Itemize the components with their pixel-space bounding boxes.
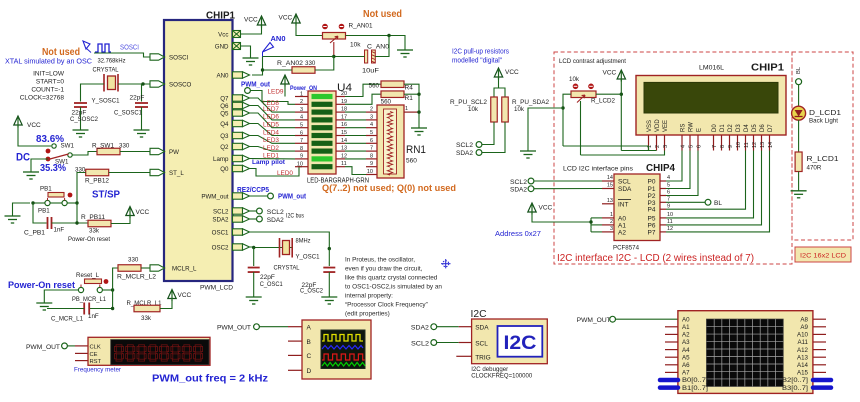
svg-text:11: 11 xyxy=(744,142,750,148)
svg-text:2: 2 xyxy=(610,219,613,225)
svg-text:SOSCI: SOSCI xyxy=(169,54,189,61)
svg-text:VCC: VCC xyxy=(279,15,293,22)
svg-text:D4: D4 xyxy=(744,124,750,132)
svg-text:I2C bus: I2C bus xyxy=(286,213,304,220)
svg-text:SOSCI: SOSCI xyxy=(120,45,139,52)
svg-text:C_OSC1: C_OSC1 xyxy=(260,281,283,288)
svg-text:even if you draw the circuit,: even if you draw the circuit, xyxy=(345,266,423,273)
svg-text:C_SOSC1: C_SOSC1 xyxy=(114,110,142,117)
svg-text:INT: INT xyxy=(618,201,629,208)
svg-text:VCC: VCC xyxy=(244,17,258,24)
svg-text:3: 3 xyxy=(300,107,303,113)
svg-text:22pF: 22pF xyxy=(260,274,275,281)
svg-text:PCF8574: PCF8574 xyxy=(613,245,639,252)
svg-text:6: 6 xyxy=(300,130,303,136)
svg-text:RN1: RN1 xyxy=(406,144,426,156)
svg-text:10k: 10k xyxy=(350,42,361,49)
svg-text:GND: GND xyxy=(215,43,229,50)
svg-text:330: 330 xyxy=(128,257,139,264)
svg-text:CLK: CLK xyxy=(90,344,101,350)
svg-text:PWM_LCD: PWM_LCD xyxy=(200,285,234,292)
svg-text:PW: PW xyxy=(169,149,179,156)
svg-text:33k: 33k xyxy=(89,228,100,235)
svg-text:ST_L: ST_L xyxy=(169,170,184,177)
svg-text:22pF: 22pF xyxy=(130,95,145,102)
svg-text:OSC1: OSC1 xyxy=(212,229,229,236)
svg-text:DC: DC xyxy=(16,152,30,164)
svg-text:A0: A0 xyxy=(682,316,690,323)
svg-text:Y_SOSC1: Y_SOSC1 xyxy=(92,98,120,105)
svg-text:10k: 10k xyxy=(468,106,479,113)
svg-text:SCL2: SCL2 xyxy=(411,340,430,347)
svg-text:R_PB12: R_PB12 xyxy=(85,178,110,185)
svg-text:7: 7 xyxy=(300,138,303,144)
svg-text:5: 5 xyxy=(300,123,303,129)
svg-text:33k: 33k xyxy=(141,315,152,322)
svg-text:R_PU_SDA2: R_PU_SDA2 xyxy=(512,99,550,106)
svg-text:D7: D7 xyxy=(768,124,774,132)
svg-text:SDA2: SDA2 xyxy=(456,150,474,157)
svg-text:internal property:: internal property: xyxy=(345,293,393,300)
svg-text:P1: P1 xyxy=(648,186,656,193)
svg-text:Vcc: Vcc xyxy=(218,31,228,38)
svg-text:7: 7 xyxy=(667,197,670,203)
svg-text:I2C: I2C xyxy=(504,333,537,354)
svg-text:3: 3 xyxy=(610,226,613,232)
svg-text:5: 5 xyxy=(667,183,670,189)
svg-text:2: 2 xyxy=(655,145,661,148)
svg-text:CHIP1: CHIP1 xyxy=(751,63,784,74)
svg-text:R_LCD1: R_LCD1 xyxy=(807,154,839,163)
svg-text:CRYSTAL: CRYSTAL xyxy=(274,265,300,272)
svg-text:SCL2: SCL2 xyxy=(213,208,229,215)
svg-text:R_PU_SCL2: R_PU_SCL2 xyxy=(450,99,488,106)
svg-text:VSS: VSS xyxy=(647,120,653,132)
svg-text:4: 4 xyxy=(370,122,373,128)
svg-text:13: 13 xyxy=(760,142,766,148)
svg-text:A10: A10 xyxy=(797,332,809,339)
svg-text:A2: A2 xyxy=(682,332,690,339)
svg-text:6: 6 xyxy=(370,138,373,144)
svg-text:CHIP1: CHIP1 xyxy=(206,11,235,22)
svg-text:1nF: 1nF xyxy=(54,227,65,234)
svg-text:9: 9 xyxy=(370,161,373,167)
svg-text:10: 10 xyxy=(667,212,673,218)
svg-text:C_OSC2: C_OSC2 xyxy=(300,288,323,295)
svg-text:13: 13 xyxy=(607,198,613,204)
svg-text:D1: D1 xyxy=(720,124,726,132)
svg-text:R1: R1 xyxy=(405,95,414,102)
svg-text:Lamp pilot: Lamp pilot xyxy=(252,159,286,166)
svg-text:E: E xyxy=(697,128,703,132)
svg-text:Lamp: Lamp xyxy=(213,156,229,163)
svg-text:R_MCLR_L2: R_MCLR_L2 xyxy=(117,274,157,281)
svg-text:SDA: SDA xyxy=(618,186,632,193)
svg-text:Power-On reset: Power-On reset xyxy=(8,280,76,291)
svg-text:Q5: Q5 xyxy=(220,110,229,117)
svg-text:SCL: SCL xyxy=(618,179,631,186)
svg-text:A9: A9 xyxy=(800,324,808,331)
svg-text:P7: P7 xyxy=(648,229,656,236)
svg-text:32.768kHz: 32.768kHz xyxy=(98,58,126,65)
svg-text:BL: BL xyxy=(796,66,802,74)
svg-text:3: 3 xyxy=(663,145,669,148)
svg-text:6: 6 xyxy=(667,190,670,196)
svg-text:Q0: Q0 xyxy=(220,166,229,173)
svg-text:LCD contrast adjustment: LCD contrast adjustment xyxy=(559,58,626,65)
svg-text:1nF: 1nF xyxy=(88,313,99,320)
svg-text:A13: A13 xyxy=(797,354,809,361)
svg-text:Y_OSC1: Y_OSC1 xyxy=(296,254,320,261)
svg-text:PWM_OUT: PWM_OUT xyxy=(577,317,611,324)
svg-text:R_SW1: R_SW1 xyxy=(92,143,115,150)
svg-text:Not used: Not used xyxy=(363,9,402,20)
svg-text:B3[0..7]: B3[0..7] xyxy=(782,385,808,392)
svg-text:A: A xyxy=(307,324,312,331)
svg-text:PB1: PB1 xyxy=(40,186,52,193)
svg-text:LED1: LED1 xyxy=(263,152,279,159)
svg-text:A1: A1 xyxy=(618,222,626,229)
svg-text:A1: A1 xyxy=(682,324,690,331)
svg-text:START=0: START=0 xyxy=(36,79,65,86)
svg-text:PWM_out: PWM_out xyxy=(241,80,271,89)
svg-text:SDA: SDA xyxy=(475,324,489,331)
svg-text:Power-On reset: Power-On reset xyxy=(68,236,110,243)
svg-text:VDD: VDD xyxy=(655,119,661,132)
svg-text:4: 4 xyxy=(667,175,670,181)
svg-text:Frequency meter: Frequency meter xyxy=(74,367,121,374)
svg-text:4: 4 xyxy=(681,145,687,148)
svg-text:10k: 10k xyxy=(569,76,580,83)
svg-text:I2C interface I2C - LCD (2 wi: I2C interface I2C - LCD (2 wires instead… xyxy=(557,252,754,264)
svg-text:R_AN01: R_AN01 xyxy=(349,23,373,30)
svg-text:SCL2: SCL2 xyxy=(267,209,285,216)
svg-text:SDA2: SDA2 xyxy=(212,216,229,223)
svg-text:14: 14 xyxy=(607,175,613,181)
svg-text:9: 9 xyxy=(300,154,303,160)
svg-text:(edit properties): (edit properties) xyxy=(345,311,390,318)
svg-text:P6: P6 xyxy=(648,222,656,229)
svg-text:470R: 470R xyxy=(807,165,822,172)
svg-text:MCLR_L: MCLR_L xyxy=(172,265,197,272)
svg-text:A8: A8 xyxy=(800,316,808,323)
svg-text:B0[0..7]: B0[0..7] xyxy=(682,377,708,384)
svg-text:R_LCD2: R_LCD2 xyxy=(591,98,615,105)
svg-text:RW: RW xyxy=(689,122,695,132)
svg-text:CE: CE xyxy=(90,352,98,358)
svg-text:10k: 10k xyxy=(514,106,525,113)
svg-text:1: 1 xyxy=(300,91,303,97)
svg-text:VEE: VEE xyxy=(663,120,669,132)
svg-text:SDA2: SDA2 xyxy=(267,217,285,224)
svg-text:“Processor Clock Frequency”: “Processor Clock Frequency” xyxy=(345,302,428,309)
svg-text:SDA2: SDA2 xyxy=(510,187,528,194)
svg-text:A2: A2 xyxy=(618,229,626,236)
svg-text:VCC: VCC xyxy=(178,292,192,299)
svg-text:A4: A4 xyxy=(682,347,690,354)
svg-text:6: 6 xyxy=(697,145,703,148)
svg-text:10: 10 xyxy=(367,169,373,175)
svg-text:VCC: VCC xyxy=(505,69,519,76)
svg-text:P0: P0 xyxy=(648,179,656,186)
svg-text:In Proteus, the oscillator,: In Proteus, the oscillator, xyxy=(345,257,415,264)
svg-text:A12: A12 xyxy=(797,347,809,354)
svg-text:COUNT=-1: COUNT=-1 xyxy=(31,87,64,94)
svg-text:LED4: LED4 xyxy=(263,129,279,136)
svg-text:P4: P4 xyxy=(648,207,656,214)
svg-text:4: 4 xyxy=(300,115,303,121)
svg-text:ST/SP: ST/SP xyxy=(92,189,120,201)
svg-text:LED6: LED6 xyxy=(263,114,279,121)
svg-text:LED5: LED5 xyxy=(263,122,279,129)
svg-text:to OSC1-OSC2,is simulated by a: to OSC1-OSC2,is simulated by an xyxy=(345,284,442,291)
svg-text:8: 8 xyxy=(300,146,303,152)
svg-text:D5: D5 xyxy=(752,124,758,132)
svg-text:P5: P5 xyxy=(648,215,656,222)
svg-text:Q7: Q7 xyxy=(220,95,229,102)
svg-text:modelled "digital": modelled "digital" xyxy=(452,58,502,65)
svg-text:LCD I2C interface pins: LCD I2C interface pins xyxy=(563,166,634,173)
svg-text:A3: A3 xyxy=(682,339,690,346)
svg-text:A5: A5 xyxy=(682,354,690,361)
svg-text:C_MCR_L1: C_MCR_L1 xyxy=(51,316,84,323)
svg-text:D_LCD1: D_LCD1 xyxy=(809,108,841,117)
svg-text:PWM_out freq = 2 kHz: PWM_out freq = 2 kHz xyxy=(152,373,268,385)
svg-text:AN0: AN0 xyxy=(271,36,286,43)
svg-text:VCC: VCC xyxy=(539,205,553,212)
svg-text:R_AN02: R_AN02 xyxy=(277,60,304,67)
svg-text:11: 11 xyxy=(667,219,673,225)
svg-text:INIT=LOW: INIT=LOW xyxy=(33,71,65,78)
svg-text:560: 560 xyxy=(369,83,380,90)
svg-text:CHIP4: CHIP4 xyxy=(646,163,675,174)
svg-text:SCL: SCL xyxy=(475,340,488,347)
svg-text:C: C xyxy=(307,353,312,360)
svg-text:PWM_OUT: PWM_OUT xyxy=(26,344,60,351)
svg-text:330: 330 xyxy=(305,60,316,67)
svg-text:PB1: PB1 xyxy=(38,208,50,215)
svg-text:A7: A7 xyxy=(682,370,690,377)
svg-text:RE2/CCP5: RE2/CCP5 xyxy=(237,185,269,194)
svg-text:A0: A0 xyxy=(618,215,626,222)
svg-text:Address 0x27: Address 0x27 xyxy=(495,229,541,238)
svg-text:CRYSTAL: CRYSTAL xyxy=(93,67,119,74)
svg-text:LED0: LED0 xyxy=(277,170,293,177)
svg-text:12: 12 xyxy=(667,226,673,232)
svg-text:like this quartz crystal conne: like this quartz crystal connected xyxy=(345,275,438,282)
svg-text:R4: R4 xyxy=(405,85,414,92)
svg-text:PWM_OUT: PWM_OUT xyxy=(217,325,251,332)
svg-text:XTAL simulated by an OSC: XTAL simulated by an OSC xyxy=(5,57,92,66)
svg-text:SCL2: SCL2 xyxy=(510,179,528,186)
svg-text:5: 5 xyxy=(370,130,373,136)
svg-text:5: 5 xyxy=(689,145,695,148)
svg-text:A14: A14 xyxy=(797,362,809,369)
svg-text:SOSCO: SOSCO xyxy=(169,81,192,88)
svg-text:LED7: LED7 xyxy=(263,106,279,113)
svg-text:8MHz: 8MHz xyxy=(296,238,311,245)
svg-text:C_AN0: C_AN0 xyxy=(367,44,389,51)
svg-text:2: 2 xyxy=(370,107,373,113)
svg-text:1: 1 xyxy=(405,106,408,112)
svg-text:Q2: Q2 xyxy=(220,144,229,151)
svg-text:PB_MCR_L1: PB_MCR_L1 xyxy=(72,296,107,303)
svg-text:D0: D0 xyxy=(712,124,718,132)
svg-text:SW1: SW1 xyxy=(61,143,75,150)
svg-text:Back Light: Back Light xyxy=(809,118,838,125)
svg-text:LED3: LED3 xyxy=(263,137,279,144)
svg-text:Q3: Q3 xyxy=(220,133,229,140)
svg-text:10: 10 xyxy=(297,162,303,168)
svg-text:A15: A15 xyxy=(797,370,809,377)
svg-text:LED2: LED2 xyxy=(263,145,279,152)
svg-text:LM016L: LM016L xyxy=(699,65,724,72)
svg-text:D2: D2 xyxy=(728,124,734,132)
svg-text:BL: BL xyxy=(714,200,722,207)
svg-text:D6: D6 xyxy=(760,124,766,132)
svg-text:C_SOSC2: C_SOSC2 xyxy=(70,116,98,123)
svg-text:14: 14 xyxy=(768,142,774,148)
svg-text:CLOCKFREQ=100000: CLOCKFREQ=100000 xyxy=(471,372,532,379)
svg-text:I2C 16x2 LCD: I2C 16x2 LCD xyxy=(800,253,846,260)
svg-text:OSC2: OSC2 xyxy=(212,244,229,251)
svg-text:12: 12 xyxy=(752,142,758,148)
svg-text:3: 3 xyxy=(370,114,373,120)
svg-text:SCL2: SCL2 xyxy=(456,142,474,149)
svg-text:C_PB1: C_PB1 xyxy=(24,230,46,237)
svg-text:10uF: 10uF xyxy=(362,68,379,75)
svg-text:SW1: SW1 xyxy=(55,159,69,166)
svg-text:Q(7..2) not used; Q(0) not use: Q(7..2) not used; Q(0) not used xyxy=(322,183,456,194)
svg-text:B: B xyxy=(307,339,311,346)
svg-text:I2C pull-up resistors: I2C pull-up resistors xyxy=(452,49,509,56)
svg-text:A6: A6 xyxy=(682,362,690,369)
svg-text:1: 1 xyxy=(610,212,613,218)
svg-text:CLOCK=32768: CLOCK=32768 xyxy=(20,95,65,102)
svg-text:VCC: VCC xyxy=(603,70,617,77)
svg-text:D: D xyxy=(307,368,312,375)
svg-text:330: 330 xyxy=(119,143,130,150)
svg-text:560: 560 xyxy=(406,158,417,165)
svg-text:TRIG: TRIG xyxy=(475,354,491,361)
svg-text:A11: A11 xyxy=(797,339,808,346)
svg-text:8: 8 xyxy=(370,153,373,159)
svg-text:PWM_out: PWM_out xyxy=(201,193,228,200)
svg-text:Reset_L: Reset_L xyxy=(76,272,100,279)
svg-text:10: 10 xyxy=(736,142,742,148)
svg-text:9: 9 xyxy=(667,203,670,209)
svg-text:B1[0..7]: B1[0..7] xyxy=(682,385,708,392)
svg-text:VCC: VCC xyxy=(27,122,41,129)
svg-text:7: 7 xyxy=(712,145,718,148)
svg-text:LED9: LED9 xyxy=(268,88,284,95)
svg-text:Q6: Q6 xyxy=(220,103,229,110)
svg-text:7: 7 xyxy=(370,146,373,152)
svg-text:Q4: Q4 xyxy=(220,121,229,128)
svg-text:9: 9 xyxy=(728,145,734,148)
svg-text:8: 8 xyxy=(720,145,726,148)
svg-text:VCC: VCC xyxy=(136,209,150,216)
svg-text:SDA2: SDA2 xyxy=(411,324,430,331)
svg-text:2: 2 xyxy=(300,99,303,105)
svg-text:D3: D3 xyxy=(736,124,742,132)
svg-text:RST: RST xyxy=(90,359,102,365)
svg-text:B2[0..7]: B2[0..7] xyxy=(782,377,808,384)
svg-text:PWM_out: PWM_out xyxy=(278,192,307,201)
svg-text:RS: RS xyxy=(681,124,687,132)
svg-text:AN0: AN0 xyxy=(216,72,229,79)
svg-text:15: 15 xyxy=(607,183,613,189)
